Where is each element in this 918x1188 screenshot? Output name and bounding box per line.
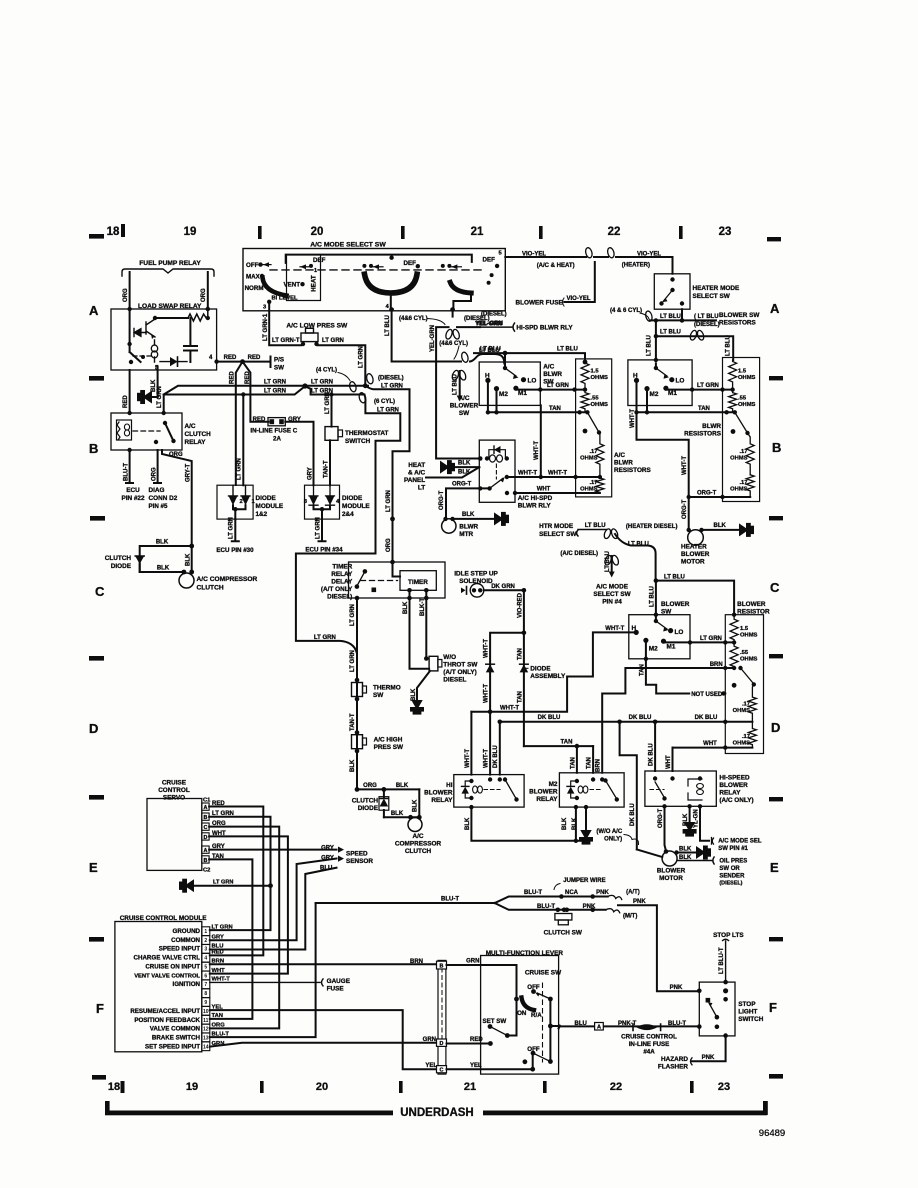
svg-text:LO: LO bbox=[675, 629, 684, 636]
relay K7 HI-SPEED BLOWER RELAY box bbox=[645, 771, 716, 806]
svg-text:COMMON: COMMON bbox=[171, 937, 200, 944]
wire BLU-T jumper main bbox=[316, 902, 495, 904]
wire GRN pin14 to MFL D bbox=[210, 1043, 437, 1047]
wire LT BLU top row C bbox=[656, 581, 734, 615]
svg-text:11: 11 bbox=[203, 1018, 209, 1024]
svg-text:LT GRN: LT GRN bbox=[157, 386, 163, 408]
wire TAN row to M2 relay bbox=[524, 745, 593, 747]
svg-text:BLK: BLK bbox=[572, 817, 578, 830]
wire LT BLU left run bbox=[474, 353, 585, 362]
svg-text:WHT: WHT bbox=[537, 487, 551, 493]
wire PNK to stop light switch bbox=[618, 905, 699, 991]
svg-text:CLUTCH: CLUTCH bbox=[197, 585, 224, 592]
svg-text:CONN D2: CONN D2 bbox=[149, 495, 178, 502]
svg-text:PRES SW: PRES SW bbox=[374, 744, 404, 751]
servo pin B bbox=[202, 813, 209, 820]
svg-text:TAN: TAN bbox=[517, 648, 523, 660]
wire BLK HI relay to ground bus bbox=[471, 807, 583, 841]
svg-text:19: 19 bbox=[186, 1081, 198, 1093]
svg-text:GRY-T: GRY-T bbox=[186, 464, 192, 482]
svg-text:WHT-T: WHT-T bbox=[212, 977, 231, 983]
svg-text:LT GRN: LT GRN bbox=[350, 604, 356, 626]
wire BLK blwr mtr ground bbox=[453, 518, 496, 520]
svg-text:UNDERDASH: UNDERDASH bbox=[400, 1107, 473, 1119]
svg-text:LT GRN: LT GRN bbox=[386, 490, 392, 512]
top ruler ticks bbox=[121, 224, 683, 239]
svg-text:YEL-GRN: YEL-GRN bbox=[476, 321, 503, 327]
selector arc 1 bbox=[263, 278, 287, 296]
bottom ruler left dash bbox=[92, 1075, 106, 1080]
wire BLU-T pin13 to jumper bbox=[210, 903, 316, 1037]
wire DK BLU diagonal to motor bbox=[637, 849, 663, 857]
svg-text:BLOWER SW: BLOWER SW bbox=[719, 312, 760, 319]
svg-text:18: 18 bbox=[108, 1081, 120, 1093]
svg-text:ORG: ORG bbox=[386, 538, 392, 552]
svg-text:ORG: ORG bbox=[123, 288, 129, 302]
svg-text:DK BLU: DK BLU bbox=[493, 745, 499, 768]
svg-text:5: 5 bbox=[204, 965, 207, 971]
OFF lower position bbox=[532, 1053, 534, 1069]
svg-text:LT BLU: LT BLU bbox=[628, 541, 649, 547]
resistor R10 1.5 ohms C bbox=[730, 615, 738, 643]
svg-text:BLOWER: BLOWER bbox=[737, 601, 766, 608]
svg-text:M1: M1 bbox=[667, 644, 676, 651]
svg-text:(A/T ONLY: (A/T ONLY bbox=[321, 586, 353, 593]
svg-text:2: 2 bbox=[204, 938, 207, 944]
svg-text:SW PIN #1: SW PIN #1 bbox=[718, 846, 748, 852]
svg-text:BLK: BLK bbox=[679, 846, 692, 852]
wire BLK heater motor ground bbox=[702, 529, 741, 531]
svg-text:LT BLU-T: LT BLU-T bbox=[719, 947, 725, 974]
svg-text:A/C COMPRESSOR: A/C COMPRESSOR bbox=[197, 576, 258, 583]
svg-text:PNK: PNK bbox=[596, 890, 609, 896]
svg-text:BLK: BLK bbox=[411, 688, 417, 701]
svg-text:(DIESEL): (DIESEL) bbox=[378, 376, 404, 382]
wire TAN pin2 M2 relay bbox=[592, 746, 594, 773]
svg-text:OHMS: OHMS bbox=[580, 456, 598, 462]
svg-text:SW: SW bbox=[373, 692, 384, 699]
wire LT GRN bus to thermostat bbox=[331, 395, 333, 427]
switch S4 heater mode select sw bbox=[654, 274, 690, 309]
wire TAN left bbox=[488, 380, 588, 412]
wire DK BLU step down to blower motor bbox=[620, 722, 637, 850]
svg-text:BLU: BLU bbox=[575, 1021, 587, 1027]
svg-text:B: B bbox=[203, 858, 207, 864]
svg-text:DIAG: DIAG bbox=[149, 487, 165, 494]
svg-text:DK GRN: DK GRN bbox=[491, 584, 515, 590]
svg-text:HEAT: HEAT bbox=[408, 462, 425, 469]
node 3 / wire down bbox=[267, 300, 271, 304]
resistor R2 1.5 ohms bbox=[581, 362, 589, 390]
svg-text:& A/C: & A/C bbox=[408, 470, 426, 477]
svg-text:LT BLU: LT BLU bbox=[385, 315, 391, 336]
switch S10 blower sw C box bbox=[629, 615, 690, 659]
svg-text:BLK-T: BLK-T bbox=[420, 598, 426, 616]
wire WHT-T horizontal row bbox=[471, 632, 636, 711]
svg-text:.17: .17 bbox=[739, 449, 747, 455]
module U3 cruise control module box bbox=[115, 922, 202, 1052]
svg-text:LT GRN: LT GRN bbox=[547, 383, 569, 389]
svg-text:96489: 96489 bbox=[759, 1128, 785, 1139]
wire RED split right bbox=[243, 362, 269, 422]
svg-text:WHT: WHT bbox=[212, 831, 226, 837]
svg-text:WHT-T: WHT-T bbox=[500, 705, 519, 711]
wire BRN staircase to M2 relay bbox=[602, 668, 734, 773]
svg-text:TIMER: TIMER bbox=[408, 579, 428, 586]
svg-text:(4 CYL): (4 CYL) bbox=[316, 368, 337, 374]
svg-text:TAN: TAN bbox=[561, 740, 573, 746]
svg-text:SWITCH: SWITCH bbox=[738, 1016, 764, 1023]
svg-text:.55: .55 bbox=[591, 396, 600, 402]
svg-text:RED: RED bbox=[248, 355, 261, 361]
svg-text:POSITION FEEDBACK: POSITION FEEDBACK bbox=[134, 1017, 200, 1024]
wire between loops bbox=[594, 256, 608, 258]
svg-text:M1: M1 bbox=[518, 390, 527, 397]
svg-text:ECU PIN #30: ECU PIN #30 bbox=[216, 547, 254, 554]
resistor R1 bbox=[188, 309, 208, 321]
switch section 3 dots and arrow bbox=[441, 264, 445, 268]
left margin dashes bbox=[89, 376, 105, 942]
wire DK GRN bbox=[484, 589, 524, 591]
svg-text:TAN: TAN bbox=[639, 664, 645, 676]
wire ORG left bbox=[129, 272, 131, 309]
svg-text:LT GRN: LT GRN bbox=[311, 380, 333, 386]
svg-text:HI-SPD BLWR RLY: HI-SPD BLWR RLY bbox=[516, 324, 573, 331]
svg-text:LT GRN: LT GRN bbox=[314, 635, 336, 641]
svg-text:LT BLU: LT BLU bbox=[660, 314, 681, 320]
coil A/C clutch relay bbox=[117, 420, 132, 440]
svg-text:SPEED: SPEED bbox=[346, 851, 368, 858]
wire ORG-T to blower motor bbox=[665, 806, 667, 851]
svg-text:CRUISE CONTROL: CRUISE CONTROL bbox=[621, 1034, 677, 1041]
svg-text:BLWR: BLWR bbox=[459, 524, 478, 531]
svg-text:NOT USED: NOT USED bbox=[691, 692, 723, 698]
svg-text:CRUISE ON INPUT: CRUISE ON INPUT bbox=[145, 964, 200, 971]
wire LT GRN bus lower bbox=[164, 386, 365, 413]
svg-text:A/C: A/C bbox=[412, 833, 423, 840]
svg-text:12: 12 bbox=[203, 1027, 209, 1033]
relay K4 timer relay delay box bbox=[349, 562, 446, 598]
svg-text:.17: .17 bbox=[739, 480, 747, 486]
svg-text:SW OR: SW OR bbox=[719, 866, 740, 872]
svg-text:2A: 2A bbox=[273, 436, 281, 443]
wire YEL pin10 to MFL C bbox=[210, 1010, 437, 1069]
diode module U2 2&4 box bbox=[305, 485, 340, 519]
svg-text:HEATER MODE: HEATER MODE bbox=[693, 285, 740, 292]
wire BLK panel lt bbox=[426, 467, 479, 477]
wire PNK to hazard flasher bbox=[692, 1036, 726, 1062]
svg-text:RESISTORS: RESISTORS bbox=[684, 431, 722, 438]
svg-text:PNK: PNK bbox=[670, 985, 683, 991]
svg-text:WHT: WHT bbox=[212, 968, 226, 974]
wire YEL-GRN right branch bbox=[457, 326, 480, 328]
MFL connector strip bbox=[438, 960, 446, 1074]
wire LT GRN timer pin down bbox=[356, 598, 358, 789]
svg-text:SW: SW bbox=[459, 410, 470, 417]
svg-text:D: D bbox=[440, 1041, 444, 1047]
svg-text:BRAKE SWITCH: BRAKE SWITCH bbox=[152, 1035, 201, 1042]
svg-text:BRN: BRN bbox=[596, 759, 602, 772]
wire RED from D bbox=[447, 1043, 491, 1045]
svg-text:RELAY: RELAY bbox=[331, 571, 353, 578]
svg-text:(A/T ONLY): (A/T ONLY) bbox=[443, 669, 477, 676]
wire DK BLU pin into HI-SPEED relay bbox=[654, 722, 656, 771]
wire YEL-GRN left branch down bbox=[436, 327, 480, 458]
svg-text:MOTOR: MOTOR bbox=[659, 875, 683, 882]
svg-text:YEL-GRN: YEL-GRN bbox=[430, 325, 436, 352]
svg-text:A: A bbox=[203, 805, 207, 811]
svg-text:BLK: BLK bbox=[350, 759, 356, 772]
svg-text:SW: SW bbox=[274, 365, 284, 372]
wire ORG to diag conn bbox=[154, 450, 161, 483]
svg-text:WHT-T: WHT-T bbox=[682, 456, 688, 475]
wire LT BLU-T stop lts bbox=[723, 939, 729, 982]
svg-text:8: 8 bbox=[204, 991, 207, 997]
svg-text:TAN: TAN bbox=[212, 854, 224, 860]
svg-text:SPEED INPUT: SPEED INPUT bbox=[159, 946, 200, 953]
wire LT BLU down to right blower sw bbox=[656, 320, 733, 361]
svg-text:ORG-T: ORG-T bbox=[452, 481, 472, 487]
svg-text:LT GRN: LT GRN bbox=[325, 392, 331, 414]
wire ORG-T right row bbox=[689, 496, 751, 498]
svg-text:DEF: DEF bbox=[483, 257, 496, 264]
svg-text:CLUTCH: CLUTCH bbox=[405, 848, 432, 855]
svg-text:LT BLU: LT BLU bbox=[480, 347, 501, 353]
switch S6 BLOWER SW right box bbox=[628, 360, 692, 406]
wire ORG diagonal to GRY-T bbox=[162, 450, 192, 546]
resistor R7 .55 ohms right bbox=[729, 390, 737, 413]
svg-text:(4&6 CYL): (4&6 CYL) bbox=[439, 341, 468, 347]
svg-text:BRN: BRN bbox=[710, 662, 723, 668]
svg-text:E: E bbox=[89, 860, 98, 875]
wire GRN B to cruise sw bbox=[447, 965, 517, 999]
svg-text:PNK: PNK bbox=[583, 904, 596, 910]
wire LT GRN to ECU pin 34 bbox=[319, 519, 326, 541]
switch contact clutch relay bbox=[163, 421, 167, 425]
wire ORG-T down to heater blower motor bbox=[688, 497, 690, 530]
svg-text:VENT: VENT bbox=[284, 282, 301, 289]
svg-text:C2: C2 bbox=[203, 868, 210, 874]
svg-text:LT: LT bbox=[418, 485, 425, 492]
underdash bracket bbox=[105, 1101, 768, 1115]
timer pins down bbox=[410, 590, 427, 598]
svg-text:LT GRN: LT GRN bbox=[237, 458, 243, 480]
switch contact load swap bbox=[127, 342, 131, 346]
svg-text:RED: RED bbox=[123, 395, 129, 408]
svg-text:RESUME/ACCEL INPUT: RESUME/ACCEL INPUT bbox=[130, 1008, 200, 1015]
svg-text:22: 22 bbox=[608, 226, 621, 238]
wire BLU-T to ECU pin 22 bbox=[126, 450, 133, 483]
resistor block A/C BLWR RESISTORS box bbox=[576, 359, 612, 497]
svg-text:MTR: MTR bbox=[459, 531, 473, 538]
svg-text:HEAT: HEAT bbox=[311, 275, 318, 292]
svg-text:(DIESEL): (DIESEL) bbox=[719, 881, 742, 887]
servo M1 cruise control servo box bbox=[147, 799, 202, 871]
svg-text:RELAY: RELAY bbox=[431, 797, 453, 804]
svg-text:RED: RED bbox=[470, 1037, 483, 1043]
svg-text:DIODE: DIODE bbox=[111, 563, 132, 570]
selector arc 3 bbox=[450, 282, 471, 293]
svg-text:OHMS: OHMS bbox=[738, 402, 756, 408]
wire LT BLU diag to vertical bbox=[615, 534, 656, 581]
svg-text:WHT-T: WHT-T bbox=[518, 470, 537, 476]
svg-text:23: 23 bbox=[719, 226, 732, 238]
svg-text:RED: RED bbox=[224, 355, 237, 361]
svg-text:STOP LTS: STOP LTS bbox=[713, 932, 744, 939]
svg-text:MOTOR: MOTOR bbox=[681, 559, 705, 566]
svg-text:RED: RED bbox=[212, 801, 225, 807]
svg-text:DIODE: DIODE bbox=[342, 495, 363, 502]
servo pin B2 bbox=[202, 856, 209, 863]
wire WHT-T pin7 to gauge fuse bbox=[210, 979, 323, 986]
svg-text:BLK: BLK bbox=[413, 799, 419, 812]
svg-text:TIMER: TIMER bbox=[332, 564, 352, 571]
switch S1 A/C mode select sw box bbox=[243, 249, 505, 311]
svg-text:LT BLU: LT BLU bbox=[557, 347, 578, 353]
svg-text:PIN #22: PIN #22 bbox=[121, 495, 145, 502]
ground load swap bbox=[138, 391, 151, 403]
wire GRY module pin2 to sensor bbox=[210, 859, 337, 941]
capacitor C1 bbox=[184, 318, 197, 362]
svg-text:M2: M2 bbox=[549, 781, 558, 788]
wire WHT-T vertical from blwr sw bbox=[540, 405, 542, 477]
resistor R9 .17 ohms right lower bbox=[746, 475, 754, 497]
svg-text:A/C MODE: A/C MODE bbox=[596, 584, 629, 591]
svg-text:THERMOSTAT: THERMOSTAT bbox=[345, 430, 389, 437]
svg-text:SWITCH: SWITCH bbox=[345, 438, 371, 445]
svg-text:M1: M1 bbox=[668, 390, 677, 397]
wire BLK M2 relay pins to ground bbox=[576, 807, 586, 841]
svg-text:21: 21 bbox=[471, 226, 484, 238]
svg-text:A/C LOW PRES SW: A/C LOW PRES SW bbox=[286, 323, 348, 330]
wire BRN pin5 to MFL B bbox=[210, 963, 437, 965]
svg-text:OFF: OFF bbox=[527, 1046, 540, 1053]
pressure switch S2 A/C low pres bbox=[301, 333, 318, 342]
switch S8 thermo sw bbox=[352, 683, 363, 697]
wire BLU module pin3 to sensor bbox=[210, 868, 337, 950]
svg-text:BLK: BLK bbox=[186, 553, 192, 566]
svg-text:BLK: BLK bbox=[562, 817, 568, 830]
module pin boxes 1-14 bbox=[202, 927, 210, 1051]
svg-text:PNK-T: PNK-T bbox=[618, 1021, 637, 1027]
svg-text:BLU-T: BLU-T bbox=[537, 904, 555, 910]
svg-text:PIN #4: PIN #4 bbox=[602, 599, 622, 606]
svg-text:LT BLU: LT BLU bbox=[664, 574, 685, 580]
wire TAN-T thermostat to module bbox=[329, 440, 331, 485]
svg-text:LT GRN: LT GRN bbox=[264, 388, 286, 394]
svg-text:2: 2 bbox=[240, 499, 243, 505]
switch section 2 dots and arrow bbox=[362, 264, 366, 268]
clutch diode D7 bbox=[383, 789, 385, 817]
resistor R8 .17 ohms right upper bbox=[746, 433, 754, 475]
svg-text:D: D bbox=[771, 720, 780, 735]
svg-text:(A/C ONLY): (A/C ONLY) bbox=[719, 797, 753, 804]
svg-text:BLK: BLK bbox=[403, 601, 409, 614]
svg-text:GRY: GRY bbox=[321, 855, 334, 861]
svg-text:HEATER: HEATER bbox=[681, 544, 707, 551]
svg-text:TAN: TAN bbox=[587, 757, 593, 769]
resistor R5 .17 ohms lower bbox=[596, 477, 604, 493]
svg-text:A/C: A/C bbox=[614, 452, 625, 459]
wire to P/S SW bbox=[217, 357, 271, 368]
svg-text:OHMS: OHMS bbox=[730, 487, 748, 493]
bottom ruler numbers bbox=[108, 1081, 730, 1093]
svg-text:BLU-T: BLU-T bbox=[668, 1021, 686, 1027]
wire BLK-T timer to throt sw bbox=[425, 598, 427, 656]
wire LT GRN right sw to resistors bbox=[666, 388, 733, 389]
module 1&2 internal bus bbox=[233, 505, 246, 519]
servo pin A bbox=[202, 803, 209, 810]
svg-text:RED: RED bbox=[253, 417, 266, 423]
HI-SPEED relay internals bbox=[653, 776, 657, 780]
wire VIO-YEL from mode sw pin5 bbox=[505, 256, 586, 258]
svg-text:DELAY: DELAY bbox=[331, 579, 353, 586]
wire WHT-T right side bbox=[637, 412, 689, 497]
svg-text:13: 13 bbox=[203, 1036, 209, 1042]
svg-text:1.5: 1.5 bbox=[591, 369, 600, 375]
svg-text:1: 1 bbox=[314, 268, 317, 274]
right margin dashes bbox=[769, 376, 783, 941]
wire BLK to ground bbox=[152, 367, 158, 398]
svg-text:LT BLU: LT BLU bbox=[453, 374, 459, 395]
resistor R4 .17 ohms upper bbox=[596, 434, 604, 477]
svg-text:DIODE: DIODE bbox=[358, 805, 379, 812]
svg-text:GROUND: GROUND bbox=[173, 928, 201, 935]
svg-text:R/A: R/A bbox=[531, 1012, 542, 1019]
svg-text:ORG: ORG bbox=[169, 452, 183, 458]
wire TAN M2pin to NOT USED bbox=[646, 640, 689, 693]
svg-text:LT BLU: LT BLU bbox=[647, 335, 653, 356]
svg-text:GRY: GRY bbox=[212, 935, 224, 941]
switch S5 A/C BLWR SW box bbox=[479, 362, 540, 405]
connector loop htr mode bbox=[603, 528, 619, 539]
svg-text:LT BLU: LT BLU bbox=[726, 335, 732, 356]
svg-text:A: A bbox=[770, 301, 780, 316]
svg-text:ECU PIN #34: ECU PIN #34 bbox=[305, 547, 343, 554]
wire blower fuse bbox=[564, 262, 595, 302]
svg-text:A: A bbox=[89, 303, 99, 318]
svg-text:1.5: 1.5 bbox=[738, 369, 747, 375]
svg-text:BLOWER: BLOWER bbox=[719, 782, 748, 789]
wire BLK right vertical bbox=[418, 789, 420, 817]
inner box vent/heat bbox=[287, 255, 321, 300]
svg-text:DK BLU: DK BLU bbox=[629, 715, 652, 721]
svg-text:LT GRN: LT GRN bbox=[212, 811, 234, 817]
wire VIO-RED down bbox=[523, 590, 525, 633]
svg-text:OFF: OFF bbox=[246, 262, 259, 269]
switch S3 thermostat switch bbox=[325, 427, 338, 441]
svg-text:A/C MODE SEL: A/C MODE SEL bbox=[718, 839, 762, 845]
connector squiggles A/T M/T bbox=[608, 895, 622, 899]
wire ORG-T to blwr mtr bbox=[446, 488, 490, 519]
wire WHT pin into HI-SPEED relay bbox=[672, 748, 674, 771]
connector loop HEATER bbox=[607, 247, 615, 259]
svg-text:OHMS: OHMS bbox=[738, 375, 756, 381]
wire RED servo to module pin4 bbox=[209, 807, 263, 956]
svg-text:VENT VALVE CONTROL: VENT VALVE CONTROL bbox=[134, 973, 200, 979]
svg-text:ORG: ORG bbox=[212, 821, 226, 827]
svg-text:ORG-T: ORG-T bbox=[439, 490, 445, 510]
svg-text:(4 & 6 CYL): (4 & 6 CYL) bbox=[610, 308, 642, 314]
relay K5 HI BLOWER RELAY box bbox=[454, 775, 524, 808]
svg-text:ORG: ORG bbox=[201, 288, 207, 302]
svg-text:BLWR: BLWR bbox=[702, 423, 721, 430]
wire LT BLU htr mode bbox=[577, 530, 607, 537]
svg-text:SENSOR: SENSOR bbox=[346, 858, 373, 865]
svg-text:BLK: BLK bbox=[396, 783, 409, 789]
svg-text:BLK: BLK bbox=[458, 461, 471, 467]
svg-text:MODULE: MODULE bbox=[256, 503, 284, 510]
